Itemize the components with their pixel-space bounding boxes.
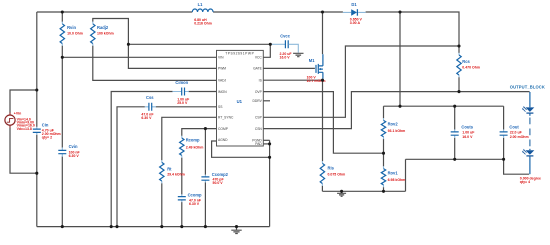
svg-text:0.075 Ohm: 0.075 Ohm [328,173,346,177]
wire source plus jog [10,90,37,113]
resistor Radj2 [91,22,114,46]
svg-text:Radj2: Radj2 [97,25,109,30]
svg-text:25.0 V: 25.0 V [177,101,188,105]
capacitor Cin [33,123,61,140]
svg-text:Rt: Rt [167,167,172,172]
wire Rcomp to Ccomp [181,158,183,195]
LED D3 (bottom of string) [520,149,541,184]
wire VIN pin net [62,56,216,58]
svg-text:Ris: Ris [328,166,335,171]
node Css ground [115,225,118,228]
wire Rov1 top lead [383,153,385,166]
svg-text:qty= 4: qty= 4 [520,180,530,184]
node VOUT / LED rail [398,105,401,108]
svg-text:RT_SYNC: RT_SYNC [218,116,234,120]
resistor Ris [320,161,345,186]
ground (Cvcc) [293,53,303,56]
wire source minus jog [10,128,37,174]
op-amp U1 (IC TPS92691PWP) [217,50,264,146]
wire Radj2 bottom to VADJ pin [93,46,217,81]
svg-text:Ccomp2: Ccomp2 [212,172,229,177]
node PGND PAD join [268,142,271,145]
wire Couts bottom lead [454,138,456,160]
node main ground symbol [235,225,238,228]
wire Rov2 top lead [383,106,385,118]
svg-text:6.30 V: 6.30 V [189,202,200,206]
wire top rail left (Vin to L1) [37,11,193,13]
svg-text:2.00 mOhm: 2.00 mOhm [510,135,529,139]
svg-text:IMON: IMON [218,90,227,94]
wire LED return drop [405,159,407,191]
node Ccomp ground [180,225,183,228]
wire VOUT horizontal [384,105,504,107]
resistor Rcomp [180,136,204,158]
svg-text:10.0 Ohm: 10.0 Ohm [67,32,83,36]
svg-text:6.30 V: 6.30 V [141,116,152,120]
svg-text:PAD: PAD [255,142,262,146]
diode D1 [343,2,366,25]
wire Cin bottom to ground rail [36,135,38,227]
wire Ccomp2 bottom lead [204,182,206,226]
capacitor Css [141,95,156,120]
svg-text:VIN: VIN [218,56,224,60]
wire PWM tie to VCC [128,44,216,68]
svg-text:Css: Css [146,95,154,100]
svg-text:CSP: CSP [255,116,263,120]
svg-text:16.0 V: 16.0 V [462,135,473,139]
capacitor Ccomp [178,193,202,206]
svg-text:DDRV: DDRV [253,99,263,103]
resistor Rov1 [381,166,405,187]
svg-text:Rov1: Rov1 [388,170,399,175]
wire Rvin top lead [61,12,63,22]
node VIN pin / Rvin bottom [61,56,64,59]
svg-text:50.0 V: 50.0 V [213,181,224,185]
wire DDRV stub [263,100,270,102]
wire Ccomp bottom lead [181,202,183,227]
svg-text:Rov2: Rov2 [388,121,399,126]
svg-text:0.470 Ohm: 0.470 Ohm [462,66,480,70]
node CSP / Rcs top [457,44,460,47]
wire PGND column to ground rail [269,140,271,226]
wire Cout bottom lead [503,138,505,160]
node Ccomp2 ground [204,225,207,228]
node Cimon ground [110,225,113,228]
node Couts bottom [453,158,456,161]
wire Rov1 bottom lead [383,187,385,191]
inductor L1 [192,2,213,26]
LED D2 (top of string) [522,92,534,116]
svg-text:Cvcc: Cvcc [280,34,291,39]
svg-text:VADJ: VADJ [218,79,227,83]
svg-text:Rcomp: Rcomp [186,138,200,143]
svg-text:L1: L1 [198,2,204,7]
svg-text:VCC: VCC [255,56,263,60]
resistor Rvin [60,22,83,46]
transistor M1 [307,54,326,83]
wire Vin+ column [36,12,38,127]
node VCC pin riser [269,43,272,46]
svg-text:Cimon: Cimon [175,80,188,85]
node source plus tap [35,88,38,91]
svg-text:Ccomp: Ccomp [188,193,202,198]
wire Rov2 bottom to OVP node [383,139,385,153]
wire SS pin to Css [156,106,217,108]
wire COMP pin net [182,129,217,136]
svg-text:29.4 kOhm: 29.4 kOhm [167,173,185,177]
wire Rcs bottom lead [458,77,460,92]
wire CSP net [263,46,459,117]
wire Ris bottom lead [321,186,323,192]
svg-text:D1: D1 [351,2,357,7]
wire Css left to ground rail [117,107,145,227]
node COMP / Ccomp2 [204,127,207,130]
svg-text:2.49 kOhm: 2.49 kOhm [186,146,204,150]
svg-text:qty= 2: qty= 2 [42,136,52,140]
svg-text:Cout: Cout [509,125,519,130]
svg-text:OUTPUT_BLOCK: OUTPUT_BLOCK [510,84,545,89]
capacitor Ccomp2 [201,172,228,185]
wire Radj2 top to VCC net [93,19,129,45]
svg-text:Cin: Cin [42,123,49,128]
svg-text:Cvin: Cvin [69,144,78,149]
node Cvin ground [61,225,64,228]
wire top rail right (D1 to VOUT riser) [366,12,459,53]
capacitor Cvin [58,144,80,158]
node IS / M1 source / Ris [321,79,324,82]
wire Rvin bottom / Cvin top column [61,46,63,148]
wire PAD stub [263,143,269,145]
wire ground rail [37,226,270,228]
svg-text:100 kOhm: 100 kOhm [97,32,114,36]
svg-text:Rvin: Rvin [67,25,76,30]
LED string dashed segment [529,118,531,149]
svg-text:Rcs: Rcs [462,59,470,64]
svg-text:GATE: GATE [253,67,263,71]
svg-text:6.30 V: 6.30 V [69,154,80,158]
node Rcs bottom / CSN [457,90,460,93]
wire RT_SYNC to Rt [162,117,217,160]
svg-text:CSN: CSN [255,127,263,131]
wire CSN net [263,92,529,129]
wire PGND stub [263,139,269,141]
voltage source +Vin [5,112,35,131]
wire GATE to M1 [263,67,315,69]
node OVP / Rov divider [382,152,385,155]
resistor Rov2 [381,118,405,139]
node M1 drain / top rail [321,10,324,13]
wire top rail mid (L1 to D1) [213,11,343,13]
wire Cout top lead [503,106,505,129]
svg-text:COMP: COMP [218,127,229,131]
wire OVP net [263,92,383,154]
wire M1 drain riser [322,12,324,54]
wire Cvin bottom lead [61,157,63,227]
node Cout bottom / LED return [502,158,505,161]
svg-text:U1: U1 [237,99,243,104]
ground (Ris / LED return) [337,191,346,196]
svg-text:M1: M1 [309,58,315,63]
svg-text:AGND: AGND [218,138,228,142]
wire VCC pin riser [263,44,270,57]
svg-text:PWM: PWM [218,67,226,71]
svg-text:3.00 A: 3.00 A [350,21,361,25]
wire Couts top lead [454,106,456,129]
capacitor Cout [500,125,529,139]
wire Rt bottom lead [161,183,163,226]
node VOUT riser / top rail [398,10,401,13]
node Rov1 bottom [382,190,385,193]
svg-text:0.216 Ohm: 0.216 Ohm [194,21,212,25]
wire bottom rail right [322,190,405,192]
wire VCC net horizontal [128,43,270,45]
node VCC / Radj2 / PWM [127,43,130,46]
svg-text:6.98 kOhm: 6.98 kOhm [388,178,406,182]
capacitor Cvcc [271,34,298,60]
node AGND join [268,156,271,159]
ground (main rail) [231,227,241,234]
wire M1 source to Ris column [322,80,324,161]
capacitor Couts [451,125,476,139]
capacitor Cimon [172,80,190,105]
svg-text:OVP: OVP [255,90,263,94]
wire IMON pin to Cimon [189,91,217,93]
svg-text:16.0 V: 16.0 V [280,56,291,60]
svg-text:TPS92691PWP: TPS92691PWP [225,52,254,56]
svg-text:Couts: Couts [461,125,473,130]
node ground Ris rail [340,190,343,193]
svg-text:+Vin: +Vin [14,112,21,116]
node Couts top [453,105,456,108]
wire VOUT riser [399,12,401,106]
wire LED cathode jog [504,159,529,174]
node Rvin top / top rail [61,10,64,13]
wire Ccomp2 riser [204,129,206,175]
wire Cimon left to ground rail [111,92,172,227]
node source minus tap [35,172,38,175]
wire IS pin net [263,79,322,81]
wire LED return horizontal [406,158,504,160]
svg-text:93.1 kOhm: 93.1 kOhm [388,129,406,133]
wire AGND return [212,141,270,157]
resistor Rt [160,160,185,183]
svg-text:Vdc=13.8: Vdc=13.8 [17,127,32,131]
node Rt ground [160,225,163,228]
resistor Rcs [457,53,480,78]
